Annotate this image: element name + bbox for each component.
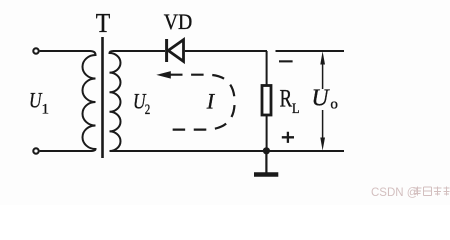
- minus sign: [279, 60, 293, 62]
- svg-text:1: 1: [42, 102, 50, 118]
- watermark glyph 2: [424, 187, 432, 196]
- current loop arrowhead: [156, 71, 171, 79]
- Uo arrow up: [320, 51, 325, 64]
- transformer secondary winding: [110, 51, 121, 151]
- Uo dimension line upper: [322, 60, 324, 89]
- current loop dashed path: [169, 75, 235, 130]
- Uo arrow down: [320, 138, 325, 151]
- ground bar: [254, 172, 278, 177]
- svg-text:CSDN @: CSDN @: [371, 187, 418, 199]
- svg-text:o: o: [330, 97, 338, 113]
- wire diode to corner: [185, 50, 267, 52]
- wire secondary top to diode: [113, 50, 165, 52]
- wire corner down to resistor: [266, 51, 268, 86]
- svg-text:2: 2: [145, 102, 151, 118]
- svg-text:U: U: [312, 86, 331, 112]
- watermark glyph 1: [414, 187, 450, 196]
- watermark glyph 3: [434, 187, 442, 196]
- watermark glyph 4: [444, 187, 450, 196]
- junction dot: [263, 147, 270, 154]
- svg-text:VD: VD: [164, 9, 193, 34]
- svg-text:R: R: [280, 86, 293, 113]
- svg-text:T: T: [96, 8, 111, 38]
- diode VD triangle: [168, 40, 183, 62]
- wire resistor to bottom: [266, 115, 268, 151]
- wire bottom of secondary loop: [113, 150, 344, 152]
- Uo dimension line lower: [322, 110, 324, 142]
- ground stub: [265, 151, 267, 173]
- diode VD cathode bar: [165, 39, 168, 62]
- wire bottom-left: [40, 150, 91, 152]
- transformer core: [101, 37, 104, 158]
- plus sign: [282, 132, 294, 143]
- terminal top-left: [33, 48, 38, 53]
- svg-text:I: I: [206, 89, 216, 114]
- wire top-left: [40, 50, 91, 52]
- terminal bottom-left: [33, 148, 38, 153]
- svg-text:L: L: [292, 101, 300, 117]
- transformer primary winding: [83, 51, 96, 151]
- wire top-right segment: [276, 50, 345, 52]
- resistor RL body: [262, 86, 271, 116]
